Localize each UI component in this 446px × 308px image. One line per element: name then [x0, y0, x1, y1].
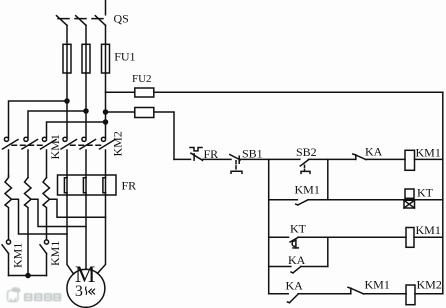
switch QS pole 1 [57, 16, 68, 45]
wire row1 SB1 to SB2 [240, 158, 299, 160]
wire phase 2 drop [85, 73, 87, 137]
wire R1 bypass jog [12, 199, 68, 234]
thermal relay FR heater element 2 [83, 175, 86, 195]
wire row2 left [269, 199, 298, 201]
pushbutton SB1 NC [230, 155, 242, 174]
wire row4 KM1 to coil [364, 293, 407, 295]
svg-text:KM2: KM2 [417, 278, 442, 292]
fuse FU1 element 3 [102, 44, 110, 73]
time relay contact KT delayed NO [290, 237, 299, 248]
wire row3 left [269, 236, 289, 238]
wire row3 coil to rail [414, 236, 443, 238]
wire row2 to KT coil [308, 199, 443, 201]
svg-text:SB1: SB1 [242, 147, 263, 161]
wire L3 incoming top [105, 0, 107, 15]
wire control line B [106, 112, 175, 159]
node phase3 FU2 tap [104, 110, 108, 114]
switch QS pole 3 [95, 16, 105, 45]
contactor KM1 main contact 2 [22, 137, 38, 177]
relay contact KA NO row4 [288, 294, 299, 303]
svg-text:KM1: KM1 [365, 278, 390, 292]
contactor contact KM1 row4 [348, 287, 364, 294]
watermark [8, 288, 62, 302]
svg-text:KT: KT [417, 186, 434, 200]
node phase2 branch [84, 109, 88, 113]
svg-text:3: 3 [75, 283, 83, 300]
coil KM2 row4 [406, 285, 415, 305]
svg-text:SB2: SB2 [296, 145, 317, 159]
svg-text:FR: FR [122, 179, 137, 193]
svg-text:KM1: KM1 [295, 183, 320, 197]
fuse FU2 element 1 [135, 88, 154, 97]
svg-text:FU2: FU2 [132, 73, 152, 85]
relay contact KA NO row3b [291, 267, 301, 273]
wire row3b to connector [301, 266, 328, 268]
motor M 3-phase [67, 269, 105, 307]
contactor KM1 shorting contact 2 [40, 240, 49, 276]
svg-text:KA: KA [288, 253, 306, 267]
svg-text:KT: KT [290, 222, 307, 236]
linkage KM2 group dashed [71, 144, 102, 146]
contactor KM1 main contact 3 [41, 137, 57, 177]
svg-text:KA: KA [365, 145, 383, 159]
wire row3 KT to coil [298, 236, 406, 238]
wire row1 FR to SB1 [203, 158, 232, 160]
wire jog phase3 to KM1 column3 [47, 122, 106, 137]
svg-text:FR: FR [204, 147, 219, 161]
coil KM1 row3 [406, 228, 414, 248]
svg-text:QS: QS [114, 12, 129, 26]
wire FR output 1 to motor [67, 195, 74, 274]
resistor R3 [43, 178, 50, 240]
wire jog phase2 to KM1 column2 [28, 111, 86, 137]
contactor KM1 main contact 1 [3, 137, 19, 176]
fuse FU2 element 2 [135, 108, 154, 118]
wire R3 bypass jog [50, 199, 106, 217]
wire R2 bypass jog [31, 199, 86, 226]
fuse FU1 element 2 [82, 44, 90, 73]
wire row4 KA to KM1 [298, 293, 351, 295]
wire row1 coil to rail [415, 158, 443, 160]
relay contact KA NO row1 [353, 154, 366, 160]
contactor KM2 main contact 2 [80, 137, 96, 175]
resistor R2 [25, 178, 32, 276]
contactor KM1 holding contact NO [296, 200, 308, 205]
wire row1 left [174, 158, 191, 160]
svg-text:KM1: KM1 [48, 134, 62, 159]
wire row3b left [269, 266, 291, 268]
wire FR output 3 to motor [98, 195, 106, 273]
wire phase 1 drop [66, 73, 68, 137]
wire shorting bus [9, 275, 47, 277]
wire row4 left [269, 293, 289, 295]
svg-text:KM1: KM1 [416, 223, 441, 237]
wire row1-row2 connector [327, 159, 329, 199]
wire jog phase1 to KM1 column1 [9, 101, 68, 137]
svg-text:KA: KA [286, 279, 304, 293]
node phase3 branch [104, 120, 108, 124]
resistor R1 [5, 176, 12, 240]
svg-text:FU1: FU1 [114, 50, 135, 64]
switch QS pole 2 [76, 16, 86, 45]
wire row4 coil to rail [415, 293, 443, 295]
wire row1 SB2 to KA [309, 158, 356, 160]
coil KM1 row1 [405, 150, 415, 170]
thermal relay FR heater element 1 [64, 175, 67, 195]
wire phase 3 drop [105, 73, 107, 137]
contactor KM2 main contact 1 [61, 137, 77, 175]
svg-text:KM1: KM1 [11, 243, 25, 268]
thermal relay FR heater box [58, 175, 117, 195]
node phase1 branch [65, 99, 69, 103]
control rail right vertical [442, 92, 444, 293]
control rail left vertical [268, 159, 270, 293]
thermal relay FR NC contact [190, 148, 203, 161]
wire FR output 2 to motor [85, 195, 87, 269]
svg-text:KM1: KM1 [416, 146, 441, 160]
thermal relay FR heater element 3 [103, 175, 106, 195]
switch QS linkage dashed [58, 18, 107, 20]
wire row3-row3b connector [327, 237, 329, 266]
pushbutton SB2 NO [300, 160, 310, 174]
node shorting bus junction [26, 274, 30, 278]
svg-text:KM2: KM2 [111, 131, 125, 156]
contactor KM1 shorting contact 1 [2, 240, 11, 276]
wire row1 KA to coil [366, 158, 405, 160]
contactor KM2 main contact 3 [100, 137, 116, 175]
wire control line A [106, 91, 443, 93]
fuse FU1 element 1 [63, 44, 71, 73]
linkage KM1 group dashed [12, 144, 43, 146]
svg-text:KM1: KM1 [48, 241, 62, 266]
coil KT time relay [404, 189, 415, 208]
